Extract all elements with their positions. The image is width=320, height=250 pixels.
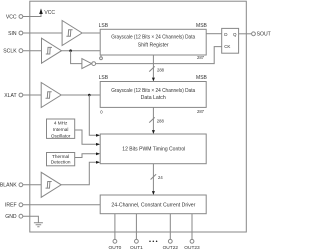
arrow thermal into PWM <box>96 152 100 155</box>
node SIN pin <box>8 31 23 37</box>
svg-text:SIN: SIN <box>8 31 17 37</box>
svg-text:XLAT: XLAT <box>4 93 16 99</box>
shift register block <box>100 29 206 55</box>
svg-text:MSB: MSB <box>196 23 208 29</box>
svg-text:MSB: MSB <box>196 75 208 81</box>
wire inverter to DFF CK <box>96 47 222 64</box>
wire thermal to PWM <box>75 154 97 158</box>
svg-text:Detection: Detection <box>51 160 71 165</box>
svg-text:VCC: VCC <box>44 10 55 16</box>
svg-text:Thermal: Thermal <box>52 154 69 159</box>
svg-text:Data Latch: Data Latch <box>141 95 166 101</box>
svg-text:CK: CK <box>224 44 230 49</box>
wire GND <box>23 216 39 223</box>
svg-text:Oscillator: Oscillator <box>51 133 71 138</box>
current driver block <box>100 195 206 214</box>
node SOUT pin <box>252 32 271 38</box>
svg-text:VCC: VCC <box>6 14 17 20</box>
svg-text:IREF: IREF <box>5 203 17 209</box>
power VCC arrow <box>39 8 55 16</box>
bus 288 shift register to latch <box>149 55 164 82</box>
wire SCLK to buffer <box>23 50 42 52</box>
wire BLANK to buffer <box>23 184 41 186</box>
thermal detection block <box>47 153 75 166</box>
svg-text:288: 288 <box>157 68 165 73</box>
svg-text:Grayscale (12 Bits × 24 Channe: Grayscale (12 Bits × 24 Channels) Data <box>111 88 195 94</box>
wire SCLK branch to inverter <box>71 51 82 64</box>
ellipsis outputs <box>149 241 157 243</box>
wire SIN to buffer <box>23 32 62 34</box>
svg-text:Q: Q <box>233 32 237 37</box>
svg-text:SCLK: SCLK <box>3 49 17 55</box>
buffer XLAT schmitt <box>41 83 61 108</box>
node SCLK pin <box>3 49 23 55</box>
buffer SCLK schmitt <box>42 38 62 63</box>
node IREF pin <box>5 203 23 209</box>
svg-text:Shift Register: Shift Register <box>138 43 169 49</box>
svg-text:OUT22: OUT22 <box>163 245 179 250</box>
wire OUT0 <box>114 214 116 240</box>
arrow BLANK into PWM <box>96 161 100 164</box>
clock bubble shift register <box>100 55 103 60</box>
node GND pin <box>5 214 23 220</box>
svg-text:Grayscale (12 Bits × 24 Channe: Grayscale (12 Bits × 24 Channels) Data <box>111 35 195 41</box>
svg-text:24: 24 <box>158 175 163 180</box>
wire OUT22 <box>169 214 171 240</box>
svg-text:LSB: LSB <box>99 23 109 29</box>
svg-text:OUT0: OUT0 <box>109 245 122 250</box>
wire BLANK buffer to PWM <box>61 162 96 185</box>
junction SCLK <box>69 49 72 52</box>
wire shift register to DFF D <box>206 33 222 35</box>
svg-text:288: 288 <box>157 118 165 123</box>
buffer SIN schmitt <box>62 21 82 46</box>
svg-text:4 MHz: 4 MHz <box>54 121 68 126</box>
chip outline <box>30 1 247 232</box>
wire VCC <box>23 14 41 17</box>
arrow oscillator into PWM <box>96 143 100 146</box>
svg-text:24-Channel, Constant Current D: 24-Channel, Constant Current Driver <box>111 202 195 208</box>
svg-text:OUT1: OUT1 <box>130 245 143 250</box>
flip-flop U3 <box>222 28 239 53</box>
wire XLAT to buffer <box>23 94 41 96</box>
wire XLAT buffer to latch <box>61 94 100 96</box>
node OUT22 pin <box>163 239 179 250</box>
svg-text:BLANK: BLANK <box>0 183 17 189</box>
inverter U2 <box>82 59 96 69</box>
ground <box>34 223 43 227</box>
data latch block <box>100 82 206 108</box>
svg-text:SOUT: SOUT <box>257 32 271 38</box>
bus 288 latch to PWM <box>149 107 164 134</box>
svg-text:LSB: LSB <box>99 75 109 81</box>
svg-text:OUT23: OUT23 <box>184 245 200 250</box>
node BLANK pin <box>0 183 23 189</box>
svg-text:GND: GND <box>5 214 17 220</box>
bus 24 PWM to driver <box>151 164 164 195</box>
wire DFF Q to SOUT <box>239 33 252 35</box>
wire oscillator to PWM <box>75 130 97 144</box>
svg-text:Internal: Internal <box>53 127 69 132</box>
node OUT1 pin <box>130 239 143 250</box>
node OUT23 pin <box>184 239 200 250</box>
wire IREF to driver <box>23 204 100 206</box>
wire SCLK buffer to shift register <box>62 50 101 52</box>
node OUT0 pin <box>109 239 122 250</box>
wire SIN buffer to shift register <box>82 32 100 34</box>
node VCC pin <box>6 14 23 20</box>
wire OUT1 <box>135 214 137 240</box>
wire OUT23 <box>191 214 193 240</box>
svg-text:287: 287 <box>197 109 205 114</box>
svg-text:287: 287 <box>197 55 205 60</box>
junction XLAT <box>88 94 91 97</box>
wire XLAT branch to PWM <box>89 95 96 135</box>
node XLAT pin <box>4 93 23 99</box>
oscillator block <box>47 119 75 138</box>
svg-text:12 Bits PWM Timing Control: 12 Bits PWM Timing Control <box>122 147 185 153</box>
buffer BLANK schmitt <box>41 172 61 197</box>
PWM timing control block <box>100 134 206 164</box>
arrow XLAT into PWM <box>96 134 100 137</box>
